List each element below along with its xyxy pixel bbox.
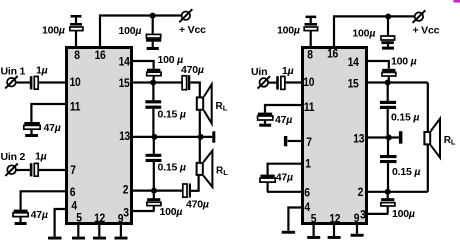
svg-text:15: 15 [119,77,130,90]
wire U2 pin 6 [267,191,303,193]
ground pin 5 [72,237,85,240]
IC U1 (left amplifier) [67,48,132,224]
svg-text:3: 3 [123,207,128,220]
svg-text:0.15 µ: 0.15 µ [392,166,420,178]
capacitor C9 0.15u (upper) [145,83,161,138]
svg-text:47µ: 47µ [275,114,292,126]
speaker LS1 [197,84,212,123]
svg-text:2: 2 [123,184,128,197]
ground U2 pin 9 [351,234,364,237]
svg-text:Uin 1: Uin 1 [1,66,26,78]
wire Uin2 to C5 [16,169,31,171]
svg-text:16: 16 [327,48,338,61]
wire Uin to C15 [268,81,277,83]
svg-text:0.15 µ: 0.15 µ [391,112,419,124]
svg-text:13: 13 [119,130,130,143]
wire U2 pin 13 [366,136,399,138]
svg-text:14: 14 [348,56,360,69]
capacitor C16 47u (ripple filter right) [258,113,273,124]
capacitor C15 1u (input coupling right) [276,76,285,89]
terminal T-bar U2 pin 13 [399,131,403,144]
svg-text:2: 2 [358,186,363,199]
wire pin 5 stub [77,224,79,237]
svg-text:14: 14 [119,56,131,69]
terminal T-bar pin 13 [212,131,215,142]
wire U2 pin 4 to ground [288,208,303,231]
capacitor C18 100u (pin14 to pin15 right) [382,69,396,83]
wire U2 pin 12 stub [333,223,335,236]
svg-text:12: 12 [94,212,105,225]
svg-text:+ Vcc: + Vcc [179,24,206,36]
wire U2 pin 11 to C16 [265,105,303,113]
capacitor C20 0.15u (lower right) [380,138,397,192]
ground U2 pin 12 [328,236,341,239]
capacitor C17 47u (pin1 to pin6) [260,175,275,192]
svg-text:100µ: 100µ [277,25,300,37]
svg-text:470µ: 470µ [186,199,209,211]
svg-text:47µ: 47µ [276,172,293,184]
svg-text:100µ: 100µ [42,25,65,37]
svg-text:10: 10 [303,76,314,89]
speaker LS3 [424,119,440,158]
capacitor C14 100u (Vcc decoupling right) [381,17,395,47]
svg-text:0.15 µ: 0.15 µ [158,162,186,174]
ground below C14 [382,47,394,50]
capacitor C6 47u (ripple filter 2) [13,210,28,222]
wire U2 pin 16 riser [333,16,335,47]
svg-text:Uin 2: Uin 2 [1,151,26,163]
wire pin 14 [131,61,154,69]
svg-text:1: 1 [305,158,310,171]
scan artifact magenta corner [454,0,460,3]
svg-text:6: 6 [70,186,75,199]
capacitor C13 100u (pin 8 bootstrap right) [304,16,317,31]
wire U2 pin 3 [366,213,388,215]
wire C11 to speaker LS2 [191,176,199,191]
svg-text:RL: RL [216,166,228,178]
wire U2 pin 2 [366,191,428,193]
wire pin 9 stub [120,224,122,237]
ground below C2 [147,47,159,50]
svg-text:7: 7 [70,164,75,177]
svg-text:100 µ: 100 µ [158,54,184,66]
svg-text:100µ: 100µ [392,208,415,220]
capacitor C11 470u (output coupling 2) [183,184,191,198]
svg-text:4: 4 [304,201,310,214]
capacitor C19 0.15u (upper right) [380,83,396,138]
wire pin15 to speaker LS3 top [427,83,429,133]
svg-text:1µ: 1µ [282,65,294,77]
svg-text:100 µ: 100 µ [391,56,417,68]
wire pin 11 to C4 [31,104,67,123]
node junction pin 15 [150,80,156,86]
wire pin 2 [131,190,183,192]
node junction pin13 b [198,134,204,140]
svg-text:+ Vcc: + Vcc [413,25,440,37]
wire pin 6 to C6 [21,191,67,210]
svg-text:5: 5 [76,212,81,225]
node junction Vcc rail right [385,14,391,20]
capacitor C5 1u (input 2 coupling) [30,163,38,176]
capacitor C1 100u (pin 8 bootstrap) [70,15,83,31]
wire U2 pin 14 [366,61,389,69]
wire pin 12 stub [98,224,100,237]
wire Uin1 to C3 [16,81,31,83]
svg-text:RL: RL [444,135,456,147]
svg-text:47µ: 47µ [31,209,48,221]
wire U2 pin 8 riser [310,31,312,48]
ground pin 4 [48,237,62,240]
ground below C16 [259,124,271,127]
capacitor C10 0.15u (lower) [146,137,162,191]
capacitor C2 100u (Vcc decoupling left) [146,16,161,48]
svg-text:7: 7 [306,136,311,149]
wire top supply rail right [333,15,415,17]
svg-text:8: 8 [74,49,79,62]
ground below C4 [25,134,38,137]
wire pin 4 to ground [55,209,67,237]
capacitor C8 470u (output coupling 1) [182,75,190,90]
wire U2 pin 1 [268,164,303,175]
wire C3 to pin 10 [38,81,67,83]
wire pin 16 riser [99,16,101,48]
node junction U2 pin 2 [385,189,391,195]
input terminal Uin 1 [5,76,17,88]
svg-text:16: 16 [95,49,106,62]
svg-text:Uin: Uin [251,66,267,78]
ground U2 pin 4 [282,231,295,234]
capacitor C21 100u (bootstrap lower right) [381,192,395,214]
wire LS1 to pin13 node [199,111,201,138]
svg-text:RL: RL [216,101,228,113]
svg-text:470µ: 470µ [181,64,204,76]
svg-text:100µ: 100µ [160,206,183,218]
svg-text:1µ: 1µ [36,65,48,77]
node junction U2 pin 13 [386,135,392,141]
wire U2 pin 7 stub [288,140,303,142]
wire U2 pin 15 [366,81,428,83]
terminal T-bar pin 7 [284,136,287,146]
wire U2 pin 9 stub [356,223,358,234]
wire pin 8 riser [75,31,77,48]
wire pin 13 [131,136,212,138]
svg-text:100µ: 100µ [352,28,375,40]
svg-text:100µ: 100µ [119,25,142,37]
wire pin13 node to LS2 [199,137,201,163]
capacitor C12 100u (bootstrap lower) [147,191,161,211]
ground pin 9 [115,237,128,240]
svg-text:15: 15 [348,78,359,91]
svg-text:0.15 µ: 0.15 µ [158,109,186,121]
wire pin 15 [131,81,182,83]
svg-text:47µ: 47µ [44,122,61,134]
svg-text:11: 11 [70,101,80,114]
svg-text:13: 13 [353,133,364,146]
input terminal Uin 2 [5,164,17,176]
wire C5 to pin 7 [38,169,67,171]
svg-text:11: 11 [304,101,314,114]
terminal +Vcc (right) [413,10,426,23]
ground pin 12 [93,237,106,240]
wire pin 3 [131,210,155,212]
node junction pin13 a [152,134,158,140]
terminal +Vcc (left) [179,9,192,22]
IC U2 (right amplifier) [303,48,367,224]
capacitor C7 100u (pin14 to pin15) [147,69,161,83]
wire C15 to U2 pin 10 [285,81,303,83]
capacitor C3 1u (input 1 coupling) [30,76,38,89]
speaker LS2 [197,151,213,187]
capacitor C4 47u (ripple filter) [24,122,40,134]
wire U2 pin 5 stub [313,223,315,236]
svg-text:8: 8 [307,49,312,62]
wire pin2 to speaker LS3 bottom [427,145,429,192]
ground below C6 [15,222,27,225]
node junction Vcc rail [150,13,156,19]
svg-text:10: 10 [70,76,81,89]
svg-text:9: 9 [118,213,123,226]
wire C8 to speaker LS1 [190,83,200,97]
input terminal Uin [258,76,270,88]
svg-text:6: 6 [304,187,309,200]
wire top supply rail [99,14,182,16]
node junction pin 2 [151,188,157,194]
svg-text:3: 3 [360,209,365,222]
svg-text:1µ: 1µ [35,151,47,163]
ground U2 pin 5 [307,236,320,239]
node junction U2 pin 15 [385,80,391,86]
